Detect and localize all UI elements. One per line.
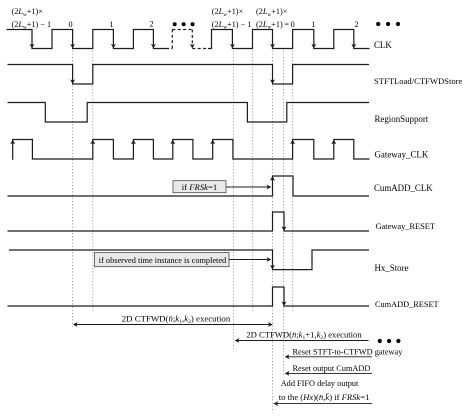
svg-text:CLK: CLK <box>374 40 392 50</box>
signal CumADD_CLK waveform <box>8 176 370 196</box>
Gateway_CLK rising-edge arrow at x=92.8 <box>90 140 95 145</box>
CLK falling-edge arrow at x=153.4 <box>151 44 156 49</box>
svg-text:STFTLoad/CTFWDStore: STFTLoad/CTFWDStore <box>374 76 463 86</box>
svg-text:Gateway_RESET: Gateway_RESET <box>376 222 436 231</box>
STFTLoad falling-edge arrow at x=272.5 <box>270 79 275 84</box>
Gateway_CLK rising-edge arrow at x=292.6 <box>290 140 295 145</box>
svg-text:0: 0 <box>68 20 72 29</box>
svg-text:CumADD_CLK: CumADD_CLK <box>374 183 433 193</box>
Gateway_CLK rising-edge arrow at x=172.8 <box>170 140 175 145</box>
svg-text:2: 2 <box>354 20 358 29</box>
annotation execution 1 span arrow <box>76 324 270 326</box>
arrow reset gateway <box>289 356 373 358</box>
wire CLK right <box>208 30 370 49</box>
wire CLK dashed break pulse <box>166 48 172 50</box>
svg-text:if observed time instance is c: if observed time instance is completed <box>99 256 227 265</box>
ellipsis dots mid top <box>173 22 177 26</box>
ellipsis dots bottom right <box>378 339 382 343</box>
signal STFTLoad/CTFWDStore waveform <box>8 65 370 85</box>
svg-text:1: 1 <box>109 20 113 29</box>
CLK falling-edge arrow at x=32 <box>30 44 35 49</box>
signal Gateway_RESET waveform <box>8 212 370 231</box>
arrow from FRSk box to CumADD_CLK rising edge <box>226 186 268 188</box>
svg-text:to the (Hx)(n̈,k̈) if FRSk=1: to the (Hx)(n̈,k̈) if FRSk=1 <box>279 392 370 402</box>
gridline x=283.5 <box>283 51 285 376</box>
arrow from observed box to Hx_Store falling edge <box>229 259 268 261</box>
CLK falling-edge arrow at x=353.8 <box>351 44 356 49</box>
svg-text:CumADD_RESET: CumADD_RESET <box>375 300 439 309</box>
gridline x=292.7 <box>292 51 294 312</box>
svg-text:2D CTFWD(n̈;k1+1,k2) execution: 2D CTFWD(n̈;k1+1,k2) execution <box>246 330 362 342</box>
svg-text:(2Lw+1) − 1: (2Lw+1) − 1 <box>212 20 252 31</box>
gridline x=72.6 <box>72 51 74 329</box>
svg-text:Gateway_CLK: Gateway_CLK <box>375 149 429 159</box>
signal Gateway_CLK waveform <box>13 140 370 160</box>
gridline x=92.8 <box>92 51 94 314</box>
svg-text:(2Lw+1) = 0: (2Lw+1) = 0 <box>256 20 295 31</box>
signal Hx_Store waveform <box>9 250 369 270</box>
annotation box if FRSk=1 <box>173 181 226 193</box>
Gateway_CLK rising-edge arrow at x=333.8 <box>331 140 336 145</box>
Gateway_RESET falling edge arrow <box>282 226 287 231</box>
Hx_Store falling edge arrow <box>270 265 275 270</box>
svg-text:1: 1 <box>311 20 315 29</box>
gridline x=252.7 <box>252 51 254 313</box>
CLK falling-edge arrow at x=192.3 <box>190 44 195 49</box>
svg-text:if FRSk=1: if FRSk=1 <box>182 182 218 192</box>
gridline x=272.5 <box>272 51 274 411</box>
CLK falling-edge arrow at x=232.4 <box>230 44 235 49</box>
gridline x=233.4 <box>232 51 234 350</box>
ellipsis dots top right <box>376 22 380 26</box>
CLK falling-edge arrow at x=72.6 <box>70 44 75 49</box>
CumADD_RESET falling edge arrow <box>282 301 287 306</box>
annotation box if observed time instance is completed <box>95 253 230 267</box>
svg-text:(2Lw+1) − 1: (2Lw+1) − 1 <box>12 20 52 31</box>
arrow reset CumADD <box>289 372 373 374</box>
annotation execution 2 span arrow <box>238 340 369 342</box>
svg-text:Hx_Store: Hx_Store <box>375 263 409 273</box>
Gateway_CLK rising-edge arrow at x=212.7 <box>210 140 215 145</box>
wire CLK solid left part <box>7 30 167 49</box>
Gateway_CLK rising-edge arrow at x=133.4 <box>131 140 136 145</box>
signal RegionSupport waveform <box>8 103 370 123</box>
svg-text:Add FIFO delay output: Add FIFO delay output <box>281 379 359 388</box>
svg-text:RegionSupport: RegionSupport <box>375 114 429 124</box>
svg-text:2: 2 <box>149 20 153 29</box>
CLK falling-edge arrow at x=313.8 <box>311 44 316 49</box>
CLK falling-edge arrow at x=113.4 <box>111 44 116 49</box>
STFTLoad falling-edge arrow at x=72.6 <box>70 79 75 84</box>
svg-text:Reset STFT-to-CTFWD gateway: Reset STFT-to-CTFWD gateway <box>293 347 404 356</box>
arrow add FIFO delay <box>277 403 372 405</box>
signal CumADD_RESET waveform <box>8 287 370 306</box>
Gateway_CLK rising-edge arrow at x=12.7 <box>10 140 15 145</box>
svg-text:Reset output CumADD: Reset output CumADD <box>293 364 371 373</box>
CumADD_CLK rising edge arrow <box>270 176 275 181</box>
CLK falling-edge arrow at x=272.5 <box>270 44 275 49</box>
svg-text:2D CTFWD(n̈;k1,k2) execution: 2D CTFWD(n̈;k1,k2) execution <box>122 313 231 325</box>
